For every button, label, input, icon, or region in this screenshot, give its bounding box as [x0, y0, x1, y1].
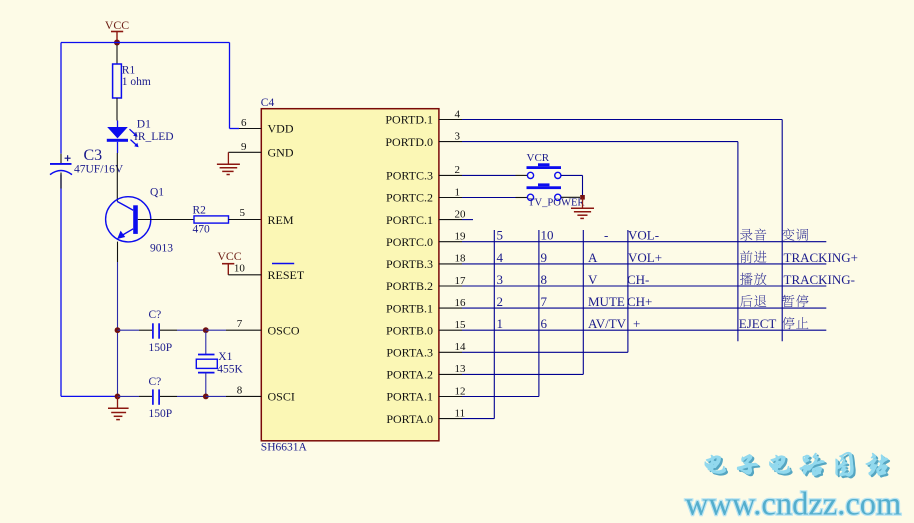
svg-text:PORTA.0: PORTA.0 — [386, 412, 433, 426]
resistor R1 — [113, 45, 151, 121]
junction node (OSCI left) — [115, 394, 121, 400]
svg-text:1: 1 — [497, 316, 504, 331]
svg-text:PORTC.1: PORTC.1 — [386, 213, 433, 227]
wire OSCI junction to pin 8 — [206, 395, 226, 397]
transistor Q1 9013 — [106, 153, 174, 262]
junction node (OSCO left) — [115, 327, 121, 333]
svg-text:10: 10 — [541, 228, 554, 243]
IC pin PORTC.2 (pin 1) — [386, 186, 462, 204]
IC pin PORTA.2 (pin 13) — [386, 363, 466, 381]
designator C4 — [261, 97, 275, 109]
diode D1 IR_LED — [107, 118, 174, 153]
svg-text:C3: C3 — [84, 147, 103, 164]
svg-text:C4: C4 — [261, 97, 275, 109]
junction node (OSCO right) — [203, 327, 209, 333]
IC pin name OSCO — [268, 323, 300, 337]
svg-text:7: 7 — [237, 318, 243, 330]
svg-text:4: 4 — [455, 108, 461, 120]
IC pin PORTD.0 (pin 3) — [385, 130, 462, 148]
svg-text:PORTA.3: PORTA.3 — [386, 346, 433, 360]
IC pin name RESET — [268, 268, 305, 282]
pin 8 stub — [226, 384, 261, 396]
wire OSC junctions vertical — [117, 330, 119, 396]
IC pin PORTB.3 (pin 18) — [386, 253, 466, 271]
wire left vertical (C3 to OSCI row) — [60, 175, 62, 397]
ground symbol (switches) — [571, 197, 594, 218]
svg-text:TRACKING-: TRACKING- — [784, 272, 856, 287]
svg-text:D1: D1 — [137, 118, 151, 130]
matrix row labels y=286.0 — [497, 272, 856, 287]
svg-text:5: 5 — [497, 228, 504, 243]
svg-text:C?: C? — [149, 309, 162, 321]
svg-text:1 ohm: 1 ohm — [122, 76, 151, 88]
svg-text:6: 6 — [241, 117, 247, 129]
IC pin PORTC.3 (pin 2) — [386, 164, 462, 182]
resistor R2 470 — [138, 204, 261, 235]
ground symbol (oscillator) — [108, 396, 129, 419]
wire VCR to ground column — [561, 175, 583, 197]
crystal X1 455K — [196, 332, 243, 395]
IC pin PORTC.1 (pin 20) — [386, 208, 466, 226]
wire matrix row (pin 18) — [462, 263, 826, 265]
svg-text:150P: 150P — [149, 342, 173, 354]
svg-text:2: 2 — [497, 294, 504, 309]
IC pin PORTD.1 (pin 4) — [385, 108, 462, 126]
svg-text:+: + — [633, 316, 640, 331]
IC pin PORTB.0 (pin 15) — [386, 319, 466, 337]
IC pin name GND — [268, 146, 294, 160]
svg-text:RESET: RESET — [268, 268, 305, 282]
svg-text:12: 12 — [455, 385, 466, 397]
wire matrix row (pin 16) — [462, 307, 826, 309]
svg-text:7: 7 — [541, 294, 548, 309]
svg-text:14: 14 — [455, 341, 467, 353]
matrix row labels y=263.9 — [497, 250, 859, 265]
pin 9 stub — [228, 141, 261, 153]
svg-text:VCC: VCC — [217, 249, 241, 263]
capacitor C3 47UF/16V — [50, 147, 124, 189]
IC pin name REM — [268, 213, 294, 227]
RESET overline — [272, 263, 294, 265]
svg-text:3: 3 — [455, 130, 461, 142]
svg-text:455K: 455K — [217, 363, 243, 375]
watermark logo — [705, 452, 890, 478]
wire OSCO junction to pin 7 — [206, 329, 226, 331]
svg-text:9: 9 — [541, 250, 548, 265]
svg-text:IR_LED: IR_LED — [134, 131, 174, 143]
IC pin name VDD — [268, 122, 294, 136]
svg-text:PORTC.0: PORTC.0 — [386, 235, 433, 249]
svg-text:1: 1 — [455, 186, 461, 198]
svg-text:3: 3 — [497, 272, 504, 287]
svg-text:VOL-: VOL- — [628, 228, 659, 243]
svg-text:17: 17 — [455, 275, 467, 287]
svg-text:VOL+: VOL+ — [628, 250, 662, 265]
wire TV_POWER to ground — [561, 196, 580, 198]
svg-text:2: 2 — [455, 164, 461, 176]
switch TV_POWER — [527, 183, 586, 208]
matrix row labels y=330.2 — [497, 316, 809, 331]
svg-text:18: 18 — [455, 253, 467, 265]
power symbol VCC (RESET pull-up) — [217, 249, 241, 275]
svg-text:19: 19 — [455, 231, 467, 243]
svg-text:PORTB.2: PORTB.2 — [386, 279, 433, 293]
matrix row labels y=308.1 — [497, 294, 809, 309]
svg-text:PORTA.1: PORTA.1 — [386, 390, 433, 404]
svg-text:TV_POWER: TV_POWER — [528, 198, 585, 209]
svg-text:PORTB.3: PORTB.3 — [386, 257, 433, 271]
svg-text:10: 10 — [234, 262, 246, 274]
svg-text:16: 16 — [455, 297, 467, 309]
svg-text:PORTC.3: PORTC.3 — [386, 169, 433, 183]
IC pin name OSCI — [268, 390, 295, 404]
svg-text:C?: C? — [149, 376, 162, 388]
wire left vertical (VCC to C3) — [60, 43, 62, 154]
wire OSCI row left segment — [61, 395, 118, 397]
IC pin PORTA.3 (pin 14) — [386, 341, 466, 359]
svg-text:OSCO: OSCO — [268, 323, 300, 337]
svg-text:EJECT: EJECT — [739, 316, 777, 331]
svg-text:470: 470 — [193, 223, 211, 235]
svg-text:R2: R2 — [193, 204, 207, 216]
svg-text:VCR: VCR — [527, 152, 550, 164]
wire pin 20 stub ext — [462, 219, 473, 221]
wire VCC rail (top horizontal) — [61, 42, 230, 44]
svg-text:47UF/16V: 47UF/16V — [74, 164, 124, 176]
svg-text:4: 4 — [497, 250, 504, 265]
svg-text:9: 9 — [241, 141, 247, 153]
svg-text:PORTB.1: PORTB.1 — [386, 301, 433, 315]
matrix row labels y=241.7 — [497, 228, 809, 243]
wire matrix column (pin 13) — [462, 230, 583, 374]
wire matrix column (pin 11) — [462, 230, 494, 419]
svg-text:20: 20 — [455, 208, 467, 220]
IC U1 SH6631A body — [261, 109, 439, 441]
pin 6 stub — [239, 117, 261, 129]
svg-text:X1: X1 — [218, 351, 232, 363]
switch VCR — [527, 152, 562, 178]
capacitor C? 150P (top) — [118, 309, 206, 354]
power symbol VCC (top) — [105, 18, 129, 43]
pin number 5 — [240, 207, 246, 219]
pin 10 stub — [228, 262, 261, 274]
svg-text:8: 8 — [541, 272, 548, 287]
wire matrix column (pin 12) — [462, 230, 539, 397]
watermark url — [685, 487, 901, 523]
ground symbol (GND pin) — [217, 152, 240, 174]
svg-text:13: 13 — [455, 363, 467, 375]
svg-text:15: 15 — [455, 319, 467, 331]
svg-text:V: V — [588, 272, 598, 287]
svg-text:R1: R1 — [122, 65, 136, 77]
IC pin PORTB.1 (pin 16) — [386, 297, 466, 315]
IC pin PORTB.2 (pin 17) — [386, 275, 466, 293]
junction node (switch ground) — [580, 195, 585, 200]
svg-text:CH+: CH+ — [627, 294, 652, 309]
wire matrix row (pin 19) — [462, 241, 826, 243]
svg-text:TRACKING+: TRACKING+ — [784, 250, 859, 265]
wire VCC branch to VDD — [230, 43, 240, 129]
svg-text:A: A — [588, 250, 598, 265]
junction node (OSCI right) — [203, 394, 209, 400]
svg-text:REM: REM — [268, 213, 294, 227]
svg-text:5: 5 — [240, 207, 246, 219]
svg-text:PORTD.1: PORTD.1 — [385, 113, 433, 127]
wire pin 2 to VCR switch — [462, 174, 527, 176]
svg-text:9013: 9013 — [150, 242, 173, 254]
svg-text:VCC: VCC — [105, 18, 129, 32]
svg-text:OSCI: OSCI — [268, 390, 295, 404]
svg-text:VDD: VDD — [268, 122, 294, 136]
IC pin PORTA.0 (pin 11) — [386, 407, 465, 425]
capacitor C? 150P (bottom) — [118, 376, 206, 420]
svg-text:GND: GND — [268, 146, 294, 160]
svg-text:PORTA.2: PORTA.2 — [386, 368, 433, 382]
svg-text:-: - — [604, 228, 608, 243]
svg-text:SH6631A: SH6631A — [261, 442, 308, 454]
pin 7 stub — [226, 318, 261, 330]
svg-text:Q1: Q1 — [150, 186, 164, 198]
svg-text:11: 11 — [455, 407, 466, 419]
svg-text:150P: 150P — [149, 408, 173, 420]
wire pin 4 route — [462, 120, 782, 342]
svg-text:MUTE: MUTE — [588, 294, 625, 309]
junction dot (VCC rail / R1) — [114, 40, 120, 46]
svg-text:PORTB.0: PORTB.0 — [386, 323, 433, 337]
svg-text:8: 8 — [237, 384, 243, 396]
part number SH6631A — [261, 442, 308, 454]
wire emitter to OSC junction — [117, 262, 119, 330]
IC pin PORTA.1 (pin 12) — [386, 385, 465, 403]
wire pin 3 route — [462, 142, 738, 342]
IC pin PORTC.0 (pin 19) — [386, 231, 466, 249]
wire matrix column (pin 14) — [462, 230, 628, 352]
svg-text:PORTC.2: PORTC.2 — [386, 191, 433, 205]
svg-text:CH-: CH- — [627, 272, 649, 287]
svg-text:PORTD.0: PORTD.0 — [385, 135, 433, 149]
svg-text:AV/TV: AV/TV — [588, 316, 627, 331]
wire matrix row (pin 15) — [462, 329, 826, 331]
wire pin 1 to TV_POWER switch — [462, 197, 527, 199]
wire matrix row (pin 17) — [462, 285, 826, 287]
svg-text:www.cndzz.com: www.cndzz.com — [685, 487, 901, 523]
svg-text:6: 6 — [541, 316, 548, 331]
